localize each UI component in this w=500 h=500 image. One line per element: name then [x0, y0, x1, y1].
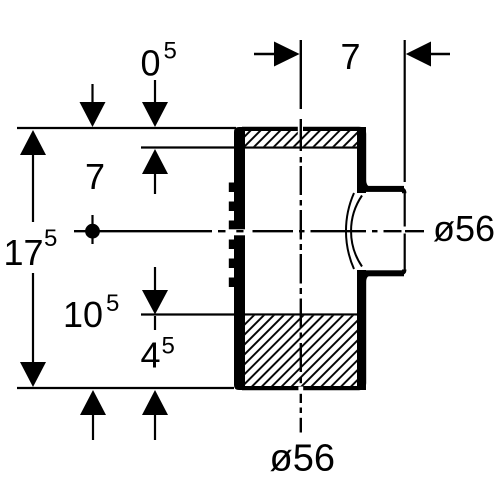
extension line of top face (L1)	[17, 127, 236, 129]
left wall (sectioned, solid)	[234, 127, 245, 390]
dimension 10.5 lower arrow	[80, 390, 106, 415]
centerline break across top face	[298, 126, 303, 134]
vertical centerline of branch socket	[300, 40, 302, 109]
dimension 17.5 upper arrow	[20, 130, 46, 155]
dimension 4.5 upper arrow	[154, 267, 156, 292]
svg-text:7: 7	[341, 36, 361, 77]
svg-text:ø56: ø56	[270, 438, 335, 480]
dimension 17.5 lower arrow	[32, 273, 34, 365]
upper socket hatching	[245, 131, 357, 146]
fitting body outline lower (branch bottom, right wall, bottom face)	[242, 270, 404, 389]
dimension 4.5 lower arrow	[142, 390, 168, 415]
centerline break across left wall	[227, 229, 248, 235]
svg-text:0: 0	[141, 43, 161, 84]
spigot ribs on left wall	[229, 183, 245, 193]
svg-text:4: 4	[141, 335, 161, 376]
lower socket hatching	[245, 316, 357, 386]
branch bore arc outer	[346, 193, 354, 269]
svg-text:17: 17	[4, 232, 44, 273]
svg-text:10: 10	[63, 294, 103, 335]
right wall upper (sectioned, solid)	[357, 127, 366, 193]
branch top wall thickening	[360, 186, 404, 192]
fitting body outline upper (top face, right wall, branch top)	[242, 129, 404, 193]
svg-text:ø56: ø56	[433, 208, 495, 249]
extension line of socket shoulder (L2)	[141, 146, 357, 148]
branch end face line	[404, 193, 406, 227]
centerline break across bottom face	[298, 387, 303, 391]
top dimension 7 left arrow	[254, 53, 276, 56]
extension line of branch end face	[404, 40, 406, 182]
dimension 7 left arrow	[91, 84, 93, 104]
branch bottom wall thickening	[360, 270, 404, 276]
extension line of lower socket shoulder (L4)	[141, 313, 357, 315]
svg-text:5: 5	[44, 225, 57, 252]
dimension 0.5 lower arrow	[142, 149, 168, 174]
svg-text:5: 5	[162, 333, 175, 360]
svg-text:5: 5	[106, 290, 119, 317]
extension line of bottom face (L3)	[17, 387, 234, 389]
svg-text:5: 5	[164, 38, 177, 65]
dimension 0.5 upper arrow	[154, 80, 156, 104]
right wall lower (sectioned, solid)	[357, 270, 366, 390]
top dimension 7 right arrow	[406, 42, 431, 67]
horizontal centerline of side branch	[74, 230, 212, 232]
svg-text:7: 7	[85, 156, 105, 197]
branch bore arc inner	[351, 196, 362, 267]
dimension 10.5 node dot on axis	[85, 224, 100, 239]
